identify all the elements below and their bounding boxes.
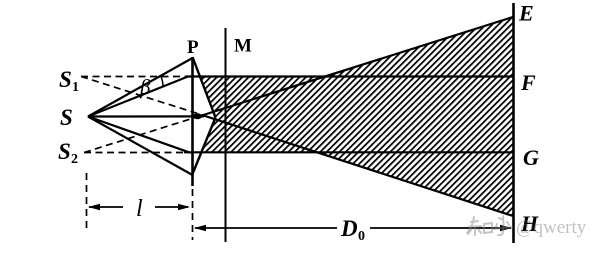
svg-text:E: E: [518, 1, 534, 26]
arrowhead D0 left: [194, 225, 206, 231]
wire axis S to prism: [88, 115, 204, 117]
angle beta arc: [161, 77, 163, 87]
biprism P top face: [193, 57, 216, 118]
svg-text:F: F: [520, 70, 536, 95]
dimension l line right segment: [155, 206, 188, 208]
dimension D0 line right segment: [370, 227, 511, 229]
svg-text:P: P: [187, 37, 199, 58]
wire ray S to F junction (beta line): [88, 77, 188, 117]
svg-text:1: 1: [72, 80, 79, 95]
screen line EFGH: [512, 3, 515, 243]
svg-text:S: S: [59, 67, 72, 92]
svg-text:S: S: [60, 105, 73, 130]
hatched interference region: [200, 17, 513, 216]
svg-text:0: 0: [358, 229, 365, 244]
svg-text:S: S: [58, 139, 71, 164]
wire dashed S1 horizontal: [81, 76, 187, 78]
biprism P base: [191, 57, 194, 186]
arrowhead l left: [88, 204, 100, 210]
dimension D0 line left segment: [195, 227, 337, 229]
wire F-line horizontal: [186, 75, 513, 77]
watermark: [467, 216, 512, 235]
wire dashed S2 horizontal: [84, 152, 193, 154]
wire E-line solid: [197, 17, 513, 117]
wire G-line horizontal: [184, 151, 513, 153]
arrowhead l right: [178, 204, 190, 210]
biprism P bottom face: [193, 118, 216, 175]
wire dashed S2 diagonal to E: [84, 117, 198, 153]
extension dashed line below prism: [192, 189, 194, 240]
extension dashed line below S: [86, 173, 88, 231]
wire dashed S1 diagonal to H: [81, 77, 204, 116]
wire ray S to G junction: [88, 117, 189, 153]
watermark glyph zhi: [467, 217, 481, 235]
svg-text:2: 2: [71, 152, 78, 167]
wire ray S to prism bottom: [88, 117, 193, 176]
wire ray S to prism top: [88, 58, 193, 117]
svg-text:@qwerty: @qwerty: [516, 217, 587, 238]
wire H-line solid: [202, 115, 513, 216]
svg-text:β: β: [139, 75, 151, 99]
svg-text:G: G: [523, 145, 539, 170]
dimension l line left segment: [89, 206, 123, 208]
node junction blob at prism axis: [193, 113, 202, 119]
plane M vertical line: [225, 28, 227, 242]
svg-text:l: l: [136, 196, 143, 222]
svg-text:D: D: [340, 216, 358, 241]
arrowhead D0 right: [500, 225, 512, 231]
watermark glyph hu: [494, 216, 512, 235]
svg-text:M: M: [234, 36, 252, 57]
